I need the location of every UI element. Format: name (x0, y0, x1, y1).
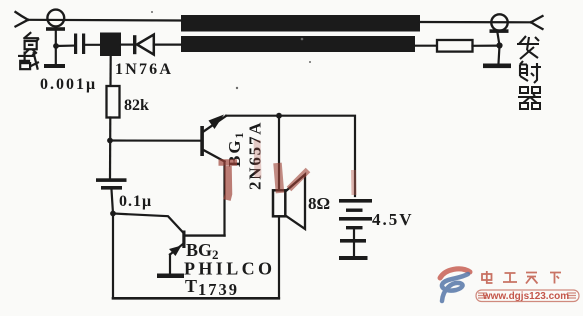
wire (56, 44, 74, 47)
transistor BG2 PHILCO T1739 (182, 231, 185, 249)
logo text xia (550, 273, 561, 284)
node (load junction) (53, 43, 59, 49)
wire (473, 44, 500, 46)
label she (transmit char 2) (520, 61, 541, 83)
speaker feed wire (278, 116, 280, 191)
terminal circle right (491, 14, 507, 30)
capacitor 0.1u plates (96, 178, 127, 182)
resistor (coupling, horizontal) (437, 40, 473, 52)
wire (498, 33, 500, 64)
transmission line bar bottom (181, 36, 415, 52)
wire (109, 118, 112, 179)
watermark stroke (over 2N657A) (257, 140, 258, 178)
terminal pedestal bar right (490, 29, 509, 33)
wire (square down to 82k) (109, 56, 111, 86)
wire (55, 31, 57, 64)
wire (28, 19, 181, 22)
svg-text:0.001μ: 0.001μ (40, 76, 97, 93)
node (right terminal junction) (496, 42, 502, 48)
detector block (black square) (100, 33, 121, 57)
svg-text:82k: 82k (124, 97, 149, 114)
logo text tian (526, 273, 538, 284)
terminal pedestal bar (46, 27, 65, 31)
svg-text:T1739: T1739 (185, 276, 239, 299)
svg-text:0.1μ: 0.1μ (119, 193, 152, 210)
wire (BG1 collector down to BG2) (223, 162, 225, 236)
wire (bottom bar to resistor) (415, 45, 437, 47)
wire (112, 190, 114, 214)
svg-text:www.dgjs123.com: www.dgjs123.com (482, 291, 569, 302)
watermark stroke (tian vertical over BG1) (219, 163, 238, 201)
wire (121, 43, 133, 45)
wire (left drop to bottom rail) (112, 214, 114, 299)
label fa (transmit char 1) (517, 36, 539, 59)
transmission line bar top (181, 15, 420, 32)
svg-text:PHILCO: PHILCO (184, 259, 275, 279)
logo banner (476, 290, 579, 302)
logo text gong (503, 273, 517, 282)
watermark stroke (over battery wire) (351, 170, 357, 195)
wire (speaker to bottom rail) (278, 216, 280, 298)
logo swirl (440, 269, 470, 301)
node (emitter/cap junction) (110, 211, 116, 217)
transistor BG1 2N657A (200, 126, 204, 156)
label fu (load char 1) (24, 32, 39, 53)
wire (top bar to right terminal) (420, 21, 531, 23)
scan specks (151, 11, 311, 89)
watermark stroke (over speaker wire) (278, 163, 309, 193)
capacitor 0.001u plates (74, 34, 77, 55)
output arrow (right antenna break) (531, 16, 543, 29)
node (speaker tap) (276, 113, 282, 119)
bottom rail wire (113, 297, 279, 300)
resistor R 82k (107, 86, 120, 118)
label qi (transmit char 3) (518, 87, 541, 109)
svg-text:8Ω: 8Ω (308, 194, 330, 213)
diode 1N76A (133, 35, 136, 54)
logo text dian (482, 271, 493, 283)
input arrow (left antenna break) (16, 12, 29, 27)
svg-text:1N76A: 1N76A (115, 61, 173, 78)
wire (BG1 emitter rail) (226, 116, 355, 196)
wire (85, 44, 100, 46)
wire (emitter to ground) (169, 255, 171, 274)
label zai (load char 2) (18, 52, 39, 70)
ground (right) (483, 64, 511, 69)
wire (to BG1 base) (110, 139, 201, 141)
terminal circle left (47, 10, 64, 27)
battery 4.5V (339, 199, 372, 203)
ground (BG2 emitter) (157, 274, 184, 279)
ground (left) (44, 64, 65, 68)
speaker 8 ohm (273, 190, 285, 216)
wire (to BG2 base) (113, 214, 184, 234)
wire (154, 43, 182, 45)
node (base junction) (107, 138, 113, 144)
svg-text:4.5V: 4.5V (372, 210, 414, 229)
